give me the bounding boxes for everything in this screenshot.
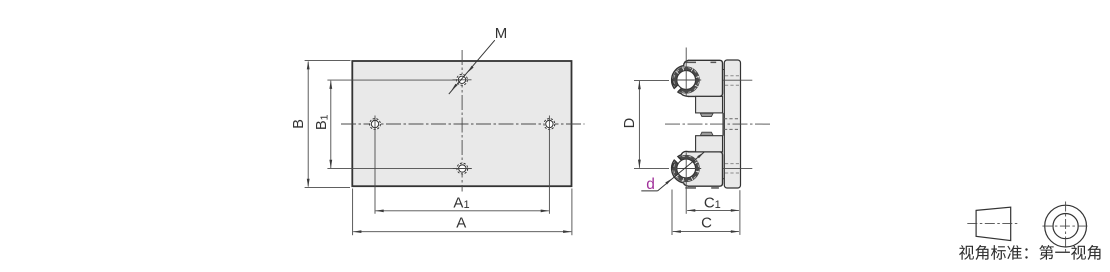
- side view: right mounting plate: [724, 60, 740, 188]
- hole top (M thread): [457, 74, 468, 85]
- side view: top clamp block with hook: [672, 65, 701, 94]
- hidden lines in plate (bottom bore): [725, 163, 740, 165]
- hidden lines in plate (slot): [724, 118, 740, 120]
- bottom bore horizontal centerline segments: [672, 168, 701, 170]
- first-angle projection symbol: frustum side view: [976, 207, 1011, 240]
- svg-text:B1: B1: [314, 114, 331, 130]
- svg-text:D: D: [622, 118, 638, 128]
- dimension D line with arrows: [638, 81, 640, 168]
- dimension B1 line with arrows: [330, 81, 332, 168]
- dimension D extension lines: [634, 79, 669, 81]
- right hole vertical centerline / A1 extension: [548, 116, 550, 214]
- side view: upper web stem: [696, 96, 723, 113]
- bottom hook tail edge: [672, 163, 673, 170]
- circles crosshair centerlines: [1042, 225, 1088, 227]
- side view: lower clamp screw head: [700, 132, 713, 135]
- bottom bore vertical centerline / C1 extension: [685, 152, 687, 214]
- side view: upper clamp screw head: [700, 113, 713, 116]
- bottom hole short horizontal centerline: [453, 168, 472, 170]
- left hole vertical centerline / A1 extension: [374, 116, 376, 214]
- hole left: [370, 119, 381, 130]
- bottom bore: clamp ring: [675, 157, 698, 180]
- projection symbol circles: [1045, 205, 1087, 247]
- svg-text:B: B: [291, 119, 307, 129]
- leader line for d: [641, 190, 657, 192]
- svg-text:C1: C1: [704, 194, 721, 211]
- top bore: clamp ring: [675, 69, 698, 92]
- hole bottom: [457, 163, 468, 174]
- dimension B1 extension lines: [327, 79, 456, 81]
- top bore horizontal centerline segments: [672, 79, 701, 81]
- dimension A1 line with arrows: [376, 210, 549, 212]
- top edge chamfer marks: [685, 62, 696, 64]
- plan view: plate rectangle: [352, 61, 571, 186]
- dimension B line with arrows: [307, 62, 309, 187]
- dimension B extension lines: [305, 60, 351, 62]
- dimension A extension lines: [352, 189, 354, 236]
- svg-text:C: C: [701, 214, 712, 231]
- side view: lower web stem: [696, 136, 723, 152]
- side view: slot right wall: [722, 113, 724, 136]
- plan view: vertical centerline through top/bottom holes: [461, 50, 463, 192]
- top hole short horizontal centerline: [453, 79, 472, 81]
- top hook tail edge: [672, 79, 673, 86]
- hole right: [544, 119, 555, 130]
- dimension C1 line with arrows: [687, 209, 739, 211]
- svg-text:A1: A1: [453, 195, 469, 212]
- middle axis centerline: [665, 123, 771, 125]
- top bore vertical centerline: [685, 48, 687, 97]
- dimension C line with arrows: [673, 231, 739, 233]
- bottom band hatch ticks: [682, 178, 685, 181]
- caption: 视角标准：第一视角 (vector outlines): [959, 245, 1100, 260]
- svg-text:M: M: [495, 25, 508, 42]
- dimension C extension lines: [671, 190, 673, 236]
- joint line top: [723, 69, 725, 71]
- dimension A line with arrows: [353, 231, 571, 233]
- joint line bottom: [723, 178, 725, 180]
- hidden lines in plate (top bore): [725, 75, 740, 77]
- plan view: horizontal centerline: [341, 123, 585, 125]
- svg-text:A: A: [456, 214, 466, 231]
- bottom edge chamfer marks: [685, 187, 696, 189]
- top band hatch ticks: [682, 67, 685, 70]
- side view: bottom clamp block with hook: [672, 154, 701, 183]
- leader line for M: [449, 40, 495, 94]
- frustum centerline: [967, 222, 1018, 224]
